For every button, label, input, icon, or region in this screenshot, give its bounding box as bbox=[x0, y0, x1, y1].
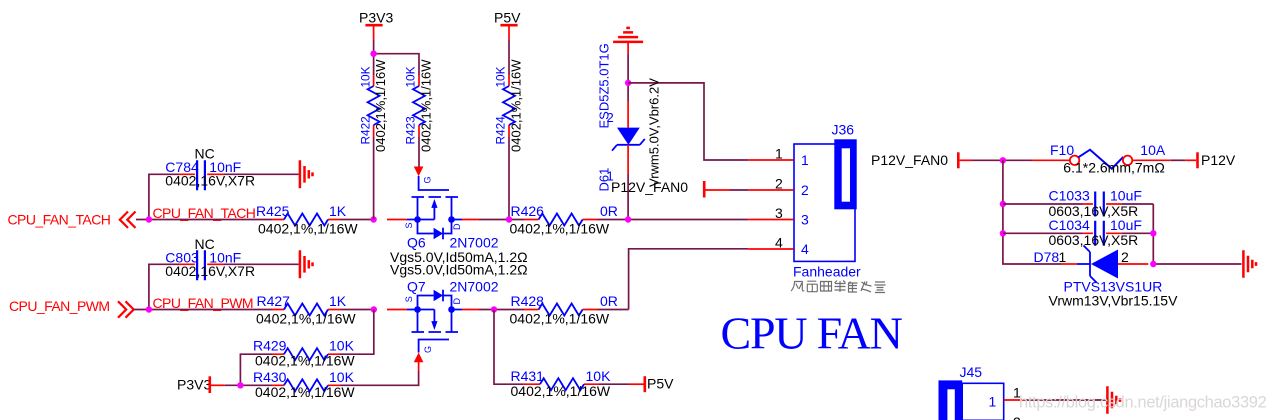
capacitor C803 bbox=[165, 236, 255, 280]
Q6/Q7 parameter labels Vgs bbox=[390, 249, 528, 278]
svg-text:P12V: P12V bbox=[1201, 152, 1236, 168]
svg-text:D78: D78 bbox=[1034, 249, 1060, 265]
node D61/TACH/J36 pin3 junction bbox=[625, 216, 631, 222]
node right rail/C1034 junction bbox=[1150, 230, 1156, 236]
wire P3V3 to R430 bbox=[225, 384, 272, 386]
power port P3V3 (top) bbox=[359, 10, 393, 41]
wire P12V_FAN0 left rail down to D78 bbox=[1003, 160, 1062, 264]
wire right ground rail bbox=[1153, 204, 1241, 264]
resistor R428 bbox=[510, 293, 618, 327]
wire D61 to TACH row bbox=[627, 174, 629, 220]
svg-text:1: 1 bbox=[1059, 249, 1067, 265]
wire R431 to P5V port bbox=[599, 383, 629, 385]
svg-text:CPU_FAN_TACH: CPU_FAN_TACH bbox=[153, 205, 256, 221]
node P12V_FAN0 rail junction bbox=[1000, 157, 1006, 163]
svg-text:10uF: 10uF bbox=[1110, 188, 1142, 204]
svg-text:R425: R425 bbox=[256, 203, 290, 219]
svg-text:P5V: P5V bbox=[647, 376, 674, 392]
wire R429 taps bbox=[240, 310, 373, 386]
svg-text:6.1*2.6mm,7mΩ: 6.1*2.6mm,7mΩ bbox=[1063, 159, 1165, 175]
svg-text:J45: J45 bbox=[960, 364, 983, 380]
wire C784 branch bbox=[149, 174, 299, 219]
svg-text:0402,1%,1/16W: 0402,1%,1/16W bbox=[255, 353, 355, 369]
resistor R427 bbox=[256, 293, 356, 327]
node rail/C1034 junction bbox=[1000, 230, 1006, 236]
svg-text:J36: J36 bbox=[832, 122, 855, 138]
svg-text:R422: R422 bbox=[358, 116, 372, 144]
J36 pin 4 stub bbox=[748, 248, 793, 250]
resistor R431 bbox=[511, 368, 612, 399]
wire R422 to TACH row bbox=[373, 137, 375, 220]
wire CPU_FAN_PWM row bbox=[134, 309, 629, 311]
svg-text:10K: 10K bbox=[586, 368, 612, 384]
svg-text:D61: D61 bbox=[597, 168, 612, 192]
diode D61 ESD5Z5.0T1G bbox=[597, 43, 662, 191]
svg-text:S: S bbox=[404, 296, 414, 302]
ground (J45) bbox=[1107, 386, 1120, 414]
resistor R430 bbox=[253, 369, 355, 400]
capacitor C1034 bbox=[1003, 217, 1153, 248]
svg-text:https://blog.csdn.net/jiangcha: https://blog.csdn.net/jiangchao3392 bbox=[1019, 394, 1267, 412]
connector J36 bbox=[794, 122, 857, 262]
svg-text:10K: 10K bbox=[494, 66, 508, 87]
node TACH/R422 junction bbox=[370, 216, 376, 222]
ground (D78 right) bbox=[1243, 250, 1256, 278]
wire CPU_FAN_TACH row bbox=[136, 219, 748, 221]
svg-text:0402,1%,1/16W: 0402,1%,1/16W bbox=[511, 383, 611, 399]
svg-text:4: 4 bbox=[775, 235, 783, 251]
wire R428 to J36 pin4 bbox=[629, 249, 749, 310]
svg-text:R427: R427 bbox=[257, 293, 291, 309]
power port P3V3 (bottom) bbox=[177, 376, 225, 393]
wire C803 branch bbox=[149, 264, 299, 309]
svg-text:0R: 0R bbox=[600, 203, 618, 219]
ground (earth, above D61) bbox=[613, 28, 643, 42]
svg-text:2: 2 bbox=[1013, 414, 1021, 420]
wire R424 to TACH row bbox=[508, 137, 510, 220]
svg-text:CPU_FAN_PWM: CPU_FAN_PWM bbox=[153, 295, 254, 311]
svg-text:P3V3: P3V3 bbox=[359, 10, 393, 26]
svg-text:3: 3 bbox=[801, 212, 809, 228]
svg-text:2: 2 bbox=[775, 176, 783, 192]
svg-text:S: S bbox=[404, 222, 414, 228]
svg-text:R431: R431 bbox=[511, 368, 545, 384]
wire P12V_FAN0 to F10 and C-rail bbox=[972, 159, 1032, 161]
svg-text:F10: F10 bbox=[1050, 142, 1074, 158]
svg-text:0402,1%,1/16W: 0402,1%,1/16W bbox=[373, 59, 388, 152]
node P3V3/R429/R430 junction bbox=[237, 382, 243, 388]
resistor R429 bbox=[253, 338, 355, 369]
svg-text:0R: 0R bbox=[600, 293, 618, 309]
svg-text:0402,1%,1/16W: 0402,1%,1/16W bbox=[510, 221, 610, 237]
J36 Chinese description 风扇四针插线座 bbox=[791, 281, 886, 293]
wire R423 to Q6 gate bbox=[418, 137, 420, 167]
capacitor C784 bbox=[165, 146, 255, 191]
J36 pin 2 stub bbox=[748, 189, 793, 191]
svg-text:Fanheader: Fanheader bbox=[793, 264, 861, 280]
svg-text:R424: R424 bbox=[494, 116, 508, 145]
svg-text:CPU_FAN_PWM: CPU_FAN_PWM bbox=[9, 298, 110, 314]
svg-text:2N7002: 2N7002 bbox=[450, 279, 499, 295]
wire ground to D61 node bbox=[627, 54, 629, 101]
svg-text:0402,1%,1/16W: 0402,1%,1/16W bbox=[510, 311, 610, 327]
svg-text:R430: R430 bbox=[253, 369, 287, 385]
svg-text:R423: R423 bbox=[404, 116, 418, 145]
svg-text:C1033: C1033 bbox=[1049, 188, 1090, 204]
node CPU_FAN_TACH junction at C784 tap bbox=[146, 216, 152, 222]
wire R430 to Q7 gate bbox=[340, 371, 419, 385]
svg-text:D: D bbox=[452, 298, 462, 305]
capacitor C1033 bbox=[1003, 188, 1153, 219]
J36 pin numbers bbox=[775, 146, 783, 251]
power port P5V (top) bbox=[494, 10, 521, 41]
power port P12V (right) bbox=[1185, 152, 1236, 169]
svg-text:0402,1%,1/16W: 0402,1%,1/16W bbox=[509, 59, 524, 152]
resistor R426 bbox=[510, 203, 618, 237]
svg-text:2: 2 bbox=[1121, 249, 1129, 265]
svg-text:ESD5Z5.0T1G: ESD5Z5.0T1G bbox=[597, 43, 612, 128]
transistor Q7 2N7002 bbox=[387, 279, 499, 372]
resistor R425 bbox=[256, 203, 358, 237]
svg-text:1: 1 bbox=[989, 394, 997, 410]
fuse F10 bbox=[1032, 142, 1171, 175]
connector J45 (bottom, partial) bbox=[939, 364, 1004, 420]
svg-text:1K: 1K bbox=[329, 293, 347, 309]
J36 pin 3 stub bbox=[748, 219, 793, 221]
svg-text:D: D bbox=[452, 223, 462, 230]
svg-text:G: G bbox=[423, 346, 433, 353]
svg-text:0603,16V,X5R: 0603,16V,X5R bbox=[1049, 232, 1139, 248]
node P3V3 junction bbox=[370, 51, 376, 57]
svg-text:P12V_FAN0: P12V_FAN0 bbox=[871, 152, 948, 168]
node TACH/R424 junction bbox=[506, 216, 512, 222]
J45 pin 1 stub bbox=[1004, 399, 1025, 401]
wire F10 to P12V port bbox=[1171, 159, 1186, 161]
svg-text:2: 2 bbox=[801, 182, 809, 198]
resistor R424 bbox=[494, 59, 524, 152]
svg-text:CPU_FAN_TACH: CPU_FAN_TACH bbox=[8, 212, 111, 228]
wire P3V3 to R422/R423 bbox=[374, 40, 419, 75]
svg-text:P3V3: P3V3 bbox=[177, 377, 211, 393]
svg-text:10uF: 10uF bbox=[1110, 217, 1142, 233]
node rail/C1033 junction bbox=[1000, 201, 1006, 207]
svg-text:4: 4 bbox=[801, 241, 809, 257]
wire GND node to J36 pin1 bbox=[628, 83, 748, 160]
port CPU_FAN_TACH (off-sheet connector, left) bbox=[8, 212, 136, 228]
wire P5V to R424 bbox=[508, 40, 510, 75]
port P12V_FAN0 (at J36 pin2) bbox=[611, 179, 730, 198]
svg-text:3: 3 bbox=[775, 205, 783, 221]
svg-text:C1034: C1034 bbox=[1049, 217, 1090, 233]
svg-text:10K: 10K bbox=[329, 369, 355, 385]
svg-text:1: 1 bbox=[801, 152, 809, 168]
wire Q7 drain to R431 bbox=[494, 310, 524, 385]
svg-text:10K: 10K bbox=[404, 66, 418, 87]
svg-text:1K: 1K bbox=[329, 203, 347, 219]
svg-text:R426: R426 bbox=[511, 203, 545, 219]
ground (C803) bbox=[300, 250, 313, 278]
svg-text:R428: R428 bbox=[511, 293, 545, 309]
node GND/D61/J36 pin1 junction bbox=[625, 80, 631, 86]
svg-text:10K: 10K bbox=[358, 66, 372, 87]
port CPU_FAN_PWM (off-sheet connector, left) bbox=[9, 298, 134, 318]
wire port to J36 pin2 bbox=[730, 189, 748, 191]
svg-text:1: 1 bbox=[775, 146, 783, 162]
diode D78 PTVS13VS1UR bbox=[1034, 246, 1179, 309]
svg-text:CPU FAN: CPU FAN bbox=[721, 308, 903, 359]
transistor Q6 2N7002 bbox=[387, 167, 499, 251]
svg-text:0402,1%,1/16W: 0402,1%,1/16W bbox=[419, 59, 434, 152]
svg-text:G: G bbox=[423, 176, 433, 183]
resistor R422 bbox=[358, 59, 388, 152]
svg-text:0402,1%,1/16W: 0402,1%,1/16W bbox=[255, 384, 355, 400]
svg-text:Vrwm5.0V,Vbr6.2V: Vrwm5.0V,Vbr6.2V bbox=[647, 78, 662, 187]
svg-text:Q7: Q7 bbox=[407, 279, 426, 295]
ground (C784) bbox=[300, 160, 313, 188]
node right rail/D78 junction bbox=[1150, 261, 1156, 267]
svg-text:P5V: P5V bbox=[494, 10, 521, 26]
node PWM/R429/Q7 junction bbox=[371, 306, 377, 312]
resistor R423 bbox=[404, 59, 434, 152]
svg-text:0402,16V,X7R: 0402,16V,X7R bbox=[165, 263, 255, 279]
port P12V_FAN0 (right, to fuse) bbox=[871, 152, 972, 169]
svg-text:10K: 10K bbox=[329, 338, 355, 354]
svg-text:R429: R429 bbox=[253, 338, 287, 354]
svg-text:0402,1%,1/16W: 0402,1%,1/16W bbox=[256, 311, 356, 327]
svg-text:10A: 10A bbox=[1140, 142, 1166, 158]
svg-text:0402,1%,1/16W: 0402,1%,1/16W bbox=[258, 221, 358, 237]
node CPU_FAN_PWM junction at C803 tap bbox=[146, 306, 152, 312]
node Q7 drain junction bbox=[491, 306, 497, 312]
svg-text:0402,16V,X7R: 0402,16V,X7R bbox=[165, 172, 255, 188]
svg-text:Vgs5.0V,Id50mA,1.2Ω: Vgs5.0V,Id50mA,1.2Ω bbox=[390, 262, 528, 278]
svg-text:Vrwm13V,Vbr15.15V: Vrwm13V,Vbr15.15V bbox=[1049, 293, 1179, 309]
wire J45 pin1 to ground bbox=[1024, 399, 1106, 401]
svg-text:P12V_FAN0: P12V_FAN0 bbox=[611, 179, 688, 195]
power port P5V (bottom right) bbox=[629, 376, 674, 393]
J36 pin 1 stub bbox=[748, 159, 793, 161]
